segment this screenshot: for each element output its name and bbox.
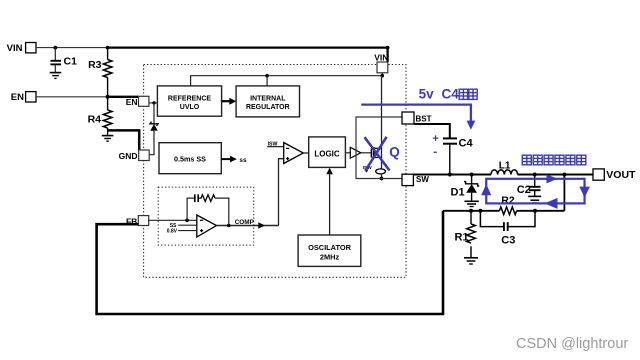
wire VIN pin down to Q [381, 76, 383, 170]
node R1 tap [469, 209, 473, 213]
svg-text:R4: R4 [88, 114, 102, 126]
node below VIN pin [381, 74, 385, 78]
arrow loop top right [547, 174, 558, 183]
block 0.5ms SS [159, 143, 221, 174]
ground (C1) [50, 73, 62, 79]
arrow loop right down [579, 187, 590, 198]
node feed junction [265, 74, 269, 78]
node zener tap [152, 101, 155, 104]
pin BST [402, 112, 432, 124]
label inductor discharge loop (电感放电回路) [522, 155, 586, 165]
wire FB pin to error amp [149, 219, 197, 221]
svg-text:VIN: VIN [7, 43, 23, 54]
arrow isw down [364, 170, 368, 173]
wire FB node rail [443, 210, 499, 212]
ground (D1) [464, 201, 478, 206]
wire EN pin to reference [149, 102, 158, 104]
blue charge line 5v [361, 105, 475, 130]
buffer U-DRV [345, 147, 371, 158]
node ea out [227, 224, 231, 228]
svg-text:D1: D1 [451, 186, 465, 198]
wire feed drop to regulator [266, 76, 268, 86]
svg-text:EN: EN [126, 97, 138, 107]
svg-text:C1: C1 [64, 56, 78, 68]
arrow into logic [326, 168, 333, 175]
capacitor C2 [517, 175, 541, 197]
svg-text:UVLO: UVLO [180, 104, 200, 111]
wire VIN rail bold [108, 48, 388, 62]
arrow comp direction [258, 222, 265, 229]
pin VOUT terminal [593, 169, 636, 181]
capacitor C1 [50, 48, 77, 73]
svg-text:REFERENCE: REFERENCE [168, 95, 212, 102]
node fb tap [185, 219, 189, 223]
node VIN-R3 junction [106, 46, 110, 50]
wire BST to C4 [414, 124, 450, 138]
IC dashed boundary [144, 65, 406, 278]
svg-text:ss: ss [239, 157, 247, 164]
node EN-R3-R4 junction [106, 95, 110, 99]
wire R4 bottom to GND pin bold [108, 130, 140, 150]
transistor Q (MOSFET) [371, 147, 381, 159]
error amp dashed box [158, 187, 254, 245]
wire ref inputs [178, 224, 197, 226]
svg-text:COMP: COMP [235, 219, 255, 226]
node C2 tap [533, 173, 537, 177]
wire oscillator to logic [329, 172, 331, 235]
svg-text:C2: C2 [517, 184, 531, 196]
svg-text:Q: Q [389, 144, 400, 159]
block OSCILATOR 2MHz [298, 235, 361, 266]
pin FB [126, 216, 149, 227]
arrow loop bottom left [545, 198, 558, 209]
wire SW output rail [413, 174, 491, 176]
svg-text:GND: GND [119, 151, 138, 161]
resistor R3 [88, 48, 112, 97]
pin EN [126, 96, 149, 107]
svg-text:LOGIC: LOGIC [314, 150, 340, 159]
capacitor C4 [443, 137, 473, 174]
label C4 charge (C4充电) [442, 87, 460, 102]
svg-text:5v: 5v [419, 87, 435, 102]
blue X over Q [365, 137, 390, 171]
diode D1 (schottky) [451, 175, 480, 201]
node top-right corner [386, 46, 390, 50]
error amp feedback RC [187, 194, 229, 225]
wire FB return bold [97, 211, 443, 314]
svg-text:VOUT: VOUT [606, 169, 636, 181]
node C4-SW [448, 173, 452, 177]
block REFERENCE UVLO U-REF [157, 86, 221, 116]
svg-text:EN: EN [11, 92, 24, 103]
svg-text:C4: C4 [459, 137, 474, 149]
svg-text:0.5ms SS: 0.5ms SS [174, 154, 206, 163]
svg-text:SW: SW [416, 175, 429, 184]
svg-text:INTERNAL: INTERNAL [250, 95, 286, 102]
wire VOUT riser [563, 175, 565, 211]
node R2 right [533, 209, 537, 213]
ground (R4) [102, 130, 114, 141]
wire comparator out [303, 152, 308, 154]
node R2 left [478, 209, 482, 213]
wire EN rail thin [36, 96, 108, 98]
wire Q source to SW [381, 174, 383, 179]
terminal EN [11, 92, 36, 104]
svg-text:C4: C4 [442, 87, 460, 102]
svg-text:C3: C3 [501, 235, 515, 247]
arrow loop left up [481, 184, 491, 195]
current sense ellipse [376, 169, 386, 174]
node Q-SW junction [380, 177, 384, 181]
pin SW [402, 174, 429, 185]
svg-text:VIN: VIN [374, 53, 388, 63]
svg-text:R1: R1 [455, 231, 469, 243]
resistor R2 [499, 195, 516, 215]
node R2 riser tap [562, 173, 566, 177]
wire EN junction to EN pin bold [108, 96, 139, 98]
arrow ss out [221, 156, 247, 164]
op-amp U-EA [197, 215, 217, 237]
arrow ref to regulator [222, 98, 237, 105]
wire COMP out [217, 225, 279, 227]
terminal VIN [7, 43, 36, 55]
svg-text:OSCILATOR: OSCILATOR [308, 243, 352, 252]
node D1-SW [470, 173, 474, 177]
ground (R1) [464, 258, 478, 264]
wire internal VIN feed [191, 73, 383, 86]
svg-text:CSDN @lightrour: CSDN @lightrour [516, 336, 628, 352]
zener diode (EN clamp) [149, 103, 158, 155]
svg-text:REGULATOR: REGULATOR [246, 104, 290, 111]
resistor R1 [455, 211, 476, 257]
svg-text:2MHz: 2MHz [320, 252, 340, 261]
comparator U-CMP [267, 141, 303, 163]
wire comp plus input [279, 159, 284, 226]
svg-text:+: + [432, 133, 438, 145]
svg-text:R3: R3 [88, 59, 102, 71]
svg-text:R2: R2 [501, 195, 515, 207]
blue discharge loop [481, 174, 590, 209]
wire VIN rail thin [36, 47, 108, 49]
pin GND [119, 150, 150, 161]
node VIN-C1 junction [53, 46, 57, 50]
svg-text:-: - [433, 145, 437, 159]
capacitor C3 (parallel R2) [480, 211, 535, 247]
block INTERNAL REGULATOR [236, 86, 299, 117]
resistor R4 [88, 97, 112, 131]
svg-text:BST: BST [416, 114, 432, 123]
svg-text:0.8V: 0.8V [167, 229, 178, 235]
ground (C2) [528, 196, 541, 203]
block LOGIC [309, 137, 346, 168]
wire BST loop [356, 117, 402, 179]
pin VIN (IC) [374, 53, 388, 73]
inductor L1 [491, 161, 518, 175]
